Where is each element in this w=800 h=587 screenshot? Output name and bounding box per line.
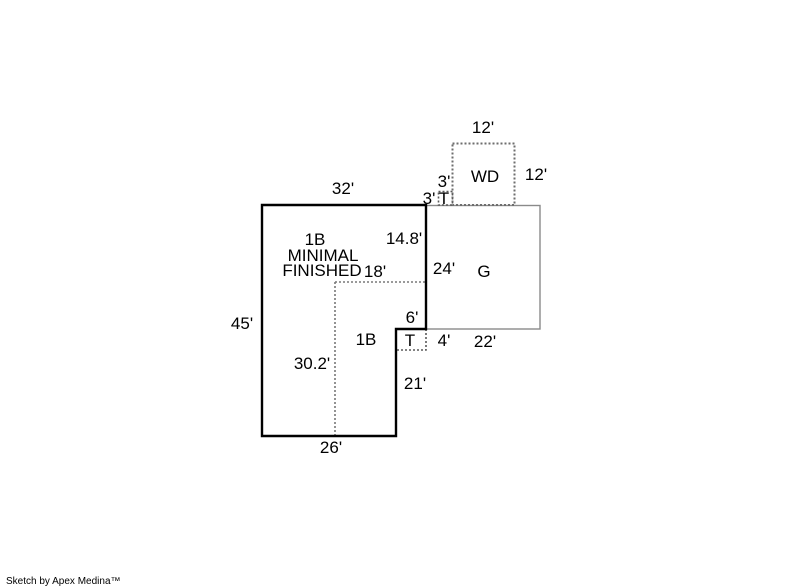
WD dashed box xyxy=(453,144,515,206)
svg-text:21': 21' xyxy=(404,374,426,393)
garage G outline xyxy=(426,206,540,330)
svg-text:18': 18' xyxy=(364,262,386,281)
svg-text:3': 3' xyxy=(423,189,436,208)
interior dashed partition 18' horizontal xyxy=(335,281,426,283)
interior dashed partition 30.2' vertical xyxy=(334,282,336,436)
svg-text:WD: WD xyxy=(471,167,499,186)
svg-text:12': 12' xyxy=(525,165,547,184)
svg-text:12': 12' xyxy=(472,118,494,137)
main structure outline xyxy=(262,205,426,436)
lower T dashed box (right + bottom sides) xyxy=(396,329,426,350)
svg-text:30.2': 30.2' xyxy=(294,354,330,373)
svg-text:FINISHED: FINISHED xyxy=(282,261,361,280)
svg-text:26': 26' xyxy=(320,438,342,457)
svg-text:T: T xyxy=(439,189,449,208)
svg-text:G: G xyxy=(477,262,490,281)
svg-text:4': 4' xyxy=(438,331,451,350)
svg-text:32': 32' xyxy=(332,179,354,198)
svg-text:6': 6' xyxy=(406,308,419,327)
small T dashed box (top) xyxy=(439,192,453,206)
svg-text:Sketch by Apex Medina™: Sketch by Apex Medina™ xyxy=(6,576,121,587)
svg-text:22': 22' xyxy=(474,332,496,351)
svg-text:T: T xyxy=(405,331,415,350)
svg-text:14.8': 14.8' xyxy=(386,229,422,248)
svg-text:1B: 1B xyxy=(356,330,377,349)
svg-text:45': 45' xyxy=(231,314,253,333)
svg-text:24': 24' xyxy=(433,259,455,278)
